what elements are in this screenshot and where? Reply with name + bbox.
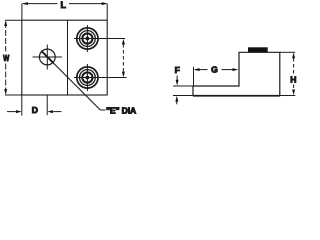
svg-text:H: H	[290, 74, 296, 84]
hole centerline horizontal	[33, 56, 63, 58]
leader slash emphasis through hole	[42, 51, 54, 63]
bolt spacing dimension line	[122, 44, 124, 72]
bolt head on top (filled)	[248, 47, 268, 52]
top edge extension left	[5, 19, 22, 21]
svg-text:"E" DIA: "E" DIA	[106, 106, 136, 116]
block outline (left view)	[22, 20, 107, 95]
extension line left bottom (D)	[21, 95, 23, 116]
side view outline (right view)	[193, 52, 280, 95]
svg-text:F: F	[175, 65, 180, 75]
dimension H arrows	[292, 53, 295, 96]
dimension F upper line+arrow	[176, 76, 178, 82]
dimension G line	[195, 69, 208, 71]
bottom edge extension right	[280, 95, 296, 97]
bolt head B2 middle circle	[80, 70, 96, 86]
bolt head B2 inner circle	[82, 72, 92, 82]
bolt head B1 center dot	[86, 37, 90, 41]
dimension G arrows	[194, 68, 239, 71]
inner edge line	[67, 20, 69, 95]
extension line right top	[106, 4, 108, 21]
hole circle	[39, 49, 55, 65]
plate top extension left	[173, 85, 193, 87]
svg-text:W: W	[3, 53, 10, 63]
dimension D line	[7, 111, 16, 113]
svg-text:G: G	[211, 65, 218, 75]
bottom edge emphasis	[193, 95, 280, 97]
bolt head B1 middle circle	[80, 31, 96, 47]
extension line left top	[21, 4, 23, 21]
dimension W arrows	[4, 20, 7, 95]
dimension H line	[293, 58, 295, 75]
bolt B2 centerline horizontal	[74, 77, 127, 79]
dimension D arrows	[16, 110, 53, 113]
dimension L arrows	[22, 2, 108, 5]
leader line to E DIA	[41, 51, 100, 110]
dimension L line	[23, 3, 58, 5]
hole centerline vertical	[46, 45, 48, 70]
bolt B1 centerline horizontal	[74, 38, 125, 40]
top edge extension right	[280, 51, 295, 53]
G extension line	[193, 67, 195, 86]
bolt head B2 center dot	[86, 76, 90, 80]
bolt head B1 outer circle	[77, 28, 98, 49]
bolt B2 centerline vertical	[86, 64, 88, 91]
bolt B1 centerline vertical	[86, 25, 88, 52]
extension line hole center (D)	[46, 95, 48, 115]
bolt head B1 inner circle	[82, 33, 92, 43]
plate bottom extension left	[173, 95, 193, 97]
dimension F lower line+arrow	[176, 100, 178, 104]
bottom edge extension left	[5, 94, 22, 96]
dimension W line	[5, 22, 7, 52]
svg-text:L: L	[60, 0, 66, 10]
bolt head B2 outer circle	[77, 67, 98, 88]
svg-text:D: D	[32, 105, 38, 115]
bolt spacing arrows	[122, 39, 125, 78]
